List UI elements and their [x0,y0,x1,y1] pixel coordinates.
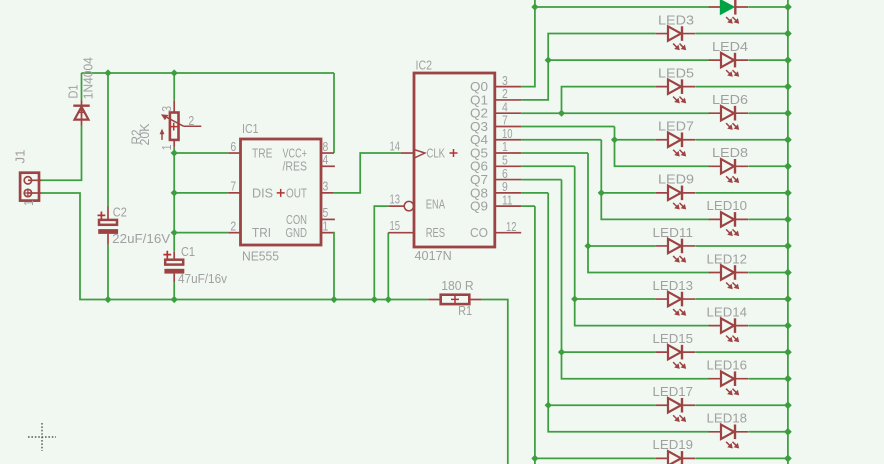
svg-text:OUT: OUT [286,185,307,200]
svg-text:1: 1 [159,144,174,150]
svg-text:13: 13 [390,191,401,206]
svg-text:LED17: LED17 [653,384,694,399]
svg-text:4: 4 [323,152,329,167]
svg-text:1: 1 [323,219,329,234]
svg-text:TRE: TRE [252,145,273,160]
svg-text:47uF/16v: 47uF/16v [178,271,227,286]
svg-text:RES: RES [426,225,446,240]
svg-text:LED19: LED19 [653,437,694,452]
svg-text:C2: C2 [113,205,127,220]
svg-text:11: 11 [502,192,513,207]
svg-text:J1: J1 [13,150,28,164]
svg-text:LED7: LED7 [658,119,694,134]
svg-text:LED9: LED9 [658,172,694,187]
svg-text:Q9: Q9 [470,199,488,214]
svg-text:ENA: ENA [426,196,446,211]
svg-text:22uF/16V: 22uF/16V [112,231,170,246]
svg-text:2: 2 [188,113,194,128]
svg-text:C1: C1 [181,244,195,259]
svg-text:LED5: LED5 [658,65,694,80]
svg-text:LED13: LED13 [653,278,694,293]
svg-text:LED12: LED12 [707,251,748,266]
svg-text:3: 3 [159,106,174,112]
svg-text:1N4004: 1N4004 [81,57,96,99]
svg-text:15: 15 [390,218,401,233]
svg-text:GND: GND [286,225,308,240]
svg-text:LED14: LED14 [707,304,748,319]
svg-text:180 R: 180 R [441,278,474,293]
svg-text:6: 6 [230,139,236,154]
svg-text:D1: D1 [66,85,81,99]
svg-text:R1: R1 [458,303,472,318]
svg-text:IC2: IC2 [416,58,433,73]
svg-text:1: 1 [21,200,36,206]
svg-text:14: 14 [390,138,401,153]
svg-text:4017N: 4017N [415,248,452,263]
svg-text:7: 7 [230,179,236,194]
svg-text:LED18: LED18 [707,411,748,426]
svg-text:LED11: LED11 [653,225,694,240]
svg-text:NE555: NE555 [242,249,279,264]
svg-text:IC1: IC1 [242,121,259,136]
svg-text:20K: 20K [137,123,152,145]
svg-text:2: 2 [230,219,236,234]
svg-text:LED16: LED16 [707,358,748,373]
svg-text:DIS: DIS [252,185,273,200]
svg-text:3: 3 [323,179,329,194]
svg-text:CLK: CLK [427,145,446,160]
svg-text:LED15: LED15 [653,331,694,346]
svg-text:LED10: LED10 [707,198,748,213]
svg-text:CO: CO [470,225,488,240]
svg-text:LED4: LED4 [712,39,748,54]
svg-text:LED8: LED8 [712,145,748,160]
svg-text:12: 12 [506,219,517,234]
svg-text:TRI: TRI [252,225,271,240]
svg-text:/RES: /RES [283,159,308,174]
svg-text:LED3: LED3 [658,12,694,27]
svg-text:LED6: LED6 [712,92,748,107]
